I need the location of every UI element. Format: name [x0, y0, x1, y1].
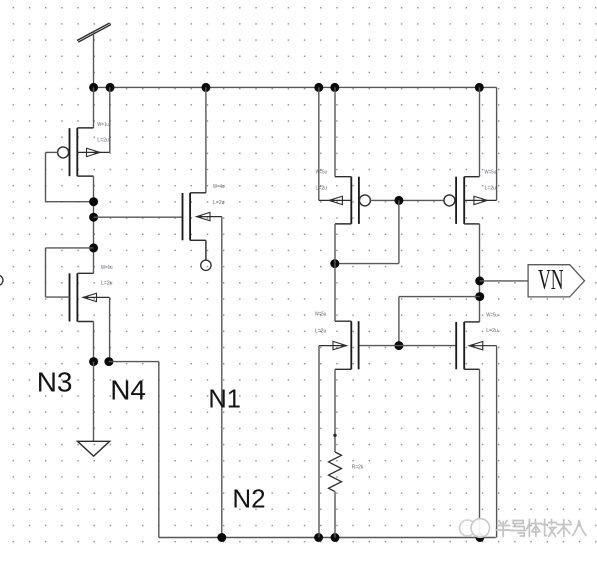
- junction on VDD rail 5: [330, 83, 339, 92]
- resistor R1 (R=2k): [329, 452, 342, 538]
- wire M3 bulk to N2 rail: [221, 217, 223, 538]
- junction NMOS gate net: [394, 341, 403, 350]
- power VDD symbol: [77, 23, 111, 87]
- svg-text:N4: N4: [110, 375, 146, 406]
- ground: [78, 441, 110, 456]
- svg-text:L=2u: L=2u: [315, 328, 327, 334]
- wire VDD top rail: [94, 86, 497, 88]
- junction on N2 rail 3: [331, 533, 340, 542]
- junction on VDD rail 6: [475, 83, 484, 92]
- open pin at left edge: [0, 275, 3, 285]
- wire VN column: [479, 224, 481, 322]
- junction N3 to M2 gate loop: [89, 243, 98, 252]
- wire M2 gate loop: [46, 248, 94, 297]
- transistor M4 (PMOS mirrored, W=5u L=2u): [319, 177, 371, 224]
- svg-text:W=5u: W=5u: [315, 312, 327, 318]
- watermark text: [496, 520, 586, 537]
- junction on N2 rail 4: [475, 533, 484, 542]
- R1 value label R=2k: [352, 464, 364, 470]
- wire left column N3 net: [93, 176, 95, 273]
- M1 value labels W=1u L=2u: [97, 122, 109, 144]
- svg-text:L=2u: L=2u: [213, 200, 225, 206]
- output port VN: [528, 265, 584, 297]
- M6 value labels W=5u L=2u: [315, 312, 327, 335]
- junction PMOS gate net: [394, 196, 403, 205]
- wire M7 gate-drain link: [399, 297, 480, 346]
- svg-text:W=5u: W=5u: [316, 169, 328, 175]
- junction on N2 rail 1: [217, 533, 226, 542]
- wire M5 drain to rail: [479, 87, 481, 176]
- junction on N2 rail 2: [314, 533, 323, 542]
- wire M4 bulk to rail: [318, 87, 320, 200]
- wire M2 source down: [93, 322, 95, 362]
- wire M4 source column: [334, 224, 336, 321]
- M5 value labels W=5u L=2u: [485, 169, 497, 191]
- junction VN tap: [475, 276, 484, 285]
- pin junction resistor top: [333, 434, 336, 437]
- M4 value labels W=5u L=2u: [316, 169, 328, 191]
- node N4 label: [110, 375, 146, 406]
- wire M6 source to resistor: [334, 369, 336, 452]
- transistor M3 (NMOS, W=4u L=2u): [183, 193, 222, 260]
- svg-text:L=2u: L=2u: [485, 186, 497, 192]
- svg-text:L=2u: L=2u: [486, 328, 498, 334]
- wire M2 bulk down: [109, 297, 111, 361]
- junction on VDD rail 2: [106, 83, 115, 92]
- junction N3 gate tap: [89, 197, 98, 206]
- transistor M5 (PMOS, W=5u L=2u): [444, 177, 497, 224]
- wire M1 gate loop: [46, 152, 94, 201]
- junction on VDD rail 3: [201, 83, 210, 92]
- wire N2 bottom rail: [159, 537, 496, 539]
- svg-text:W=4u: W=4u: [213, 184, 225, 190]
- transistor M2 (NMOS diode-connected, W=1u L=2u): [46, 273, 110, 321]
- wire M4 gate-drain link: [335, 200, 399, 263]
- transistor M6 (NMOS, W=5u L=2u): [319, 321, 359, 369]
- wire M3 drain from rail: [205, 87, 207, 192]
- M7 value labels W=5u L=2u: [486, 312, 498, 334]
- wire to VN port: [480, 280, 528, 282]
- junction N3/ground: [89, 357, 98, 366]
- svg-text:L=2u: L=2u: [101, 281, 113, 287]
- node N1 label: [208, 386, 241, 414]
- svg-text:L=2u: L=2u: [97, 138, 109, 144]
- node N2 label: [232, 484, 265, 514]
- M3 value labels W=4u L=2u: [213, 184, 225, 206]
- svg-text:N3: N3: [37, 367, 73, 398]
- svg-text:L=2u: L=2u: [316, 186, 328, 192]
- svg-text:W=1u: W=1u: [97, 122, 109, 128]
- M3 source open pin: [201, 260, 211, 270]
- wire left column drain: [93, 87, 95, 128]
- svg-text:W=5u: W=5u: [485, 169, 497, 175]
- wire M3 gate: [94, 216, 183, 218]
- watermark logo: [460, 519, 490, 538]
- svg-text:R=2k: R=2k: [352, 464, 364, 470]
- svg-text:W=5u: W=5u: [486, 312, 498, 318]
- wire PMOS gates net: [370, 199, 444, 201]
- node N3 label: [37, 367, 73, 398]
- wire M4 drain to rail: [334, 87, 336, 176]
- junction N3 to M3 gate: [89, 213, 98, 222]
- transistor M1 (PMOS diode-connected, W=1u L=2u): [46, 128, 110, 176]
- junction on VDD rail 1: [89, 83, 98, 92]
- wire M7 bulk to N2 rail corner: [496, 346, 498, 538]
- junction M4 drain link: [330, 259, 339, 268]
- junction on VDD rail 4: [314, 83, 323, 92]
- wire N4 to bottom rail: [109, 362, 159, 538]
- svg-text:N1: N1: [208, 386, 241, 414]
- svg-text:W=1u: W=1u: [101, 265, 113, 271]
- wire M1 bulk to rail: [109, 87, 111, 152]
- M2 value labels W=1u L=2u: [101, 265, 113, 287]
- transistor M7 (NMOS mirrored diode-connected, W=5u L=2u): [456, 322, 496, 369]
- svg-text:VN: VN: [538, 265, 564, 296]
- wire NMOS gates net: [359, 345, 457, 347]
- wire M7 source to N2 rail: [479, 369, 481, 537]
- junction N4: [104, 357, 113, 366]
- svg-text:N2: N2: [232, 484, 265, 514]
- wire M6 bulk to N2 rail: [318, 346, 320, 538]
- wire M5 bulk to rail corner: [496, 87, 498, 200]
- wire to ground: [93, 362, 95, 442]
- junction M7 gate-drain: [475, 292, 484, 301]
